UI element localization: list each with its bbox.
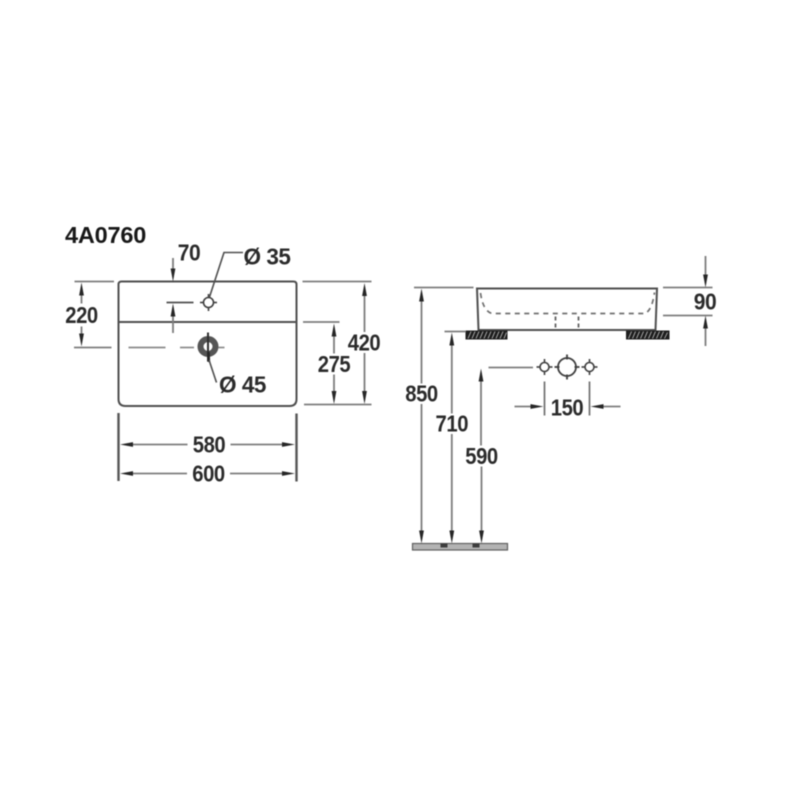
dimension 600 arrows <box>120 471 133 476</box>
floor hatch mark right <box>473 544 480 548</box>
svg-text:4A0760: 4A0760 <box>65 222 146 248</box>
dimension 220 lines <box>81 295 83 335</box>
drain dashed lines (side view) <box>556 317 579 331</box>
svg-text:710: 710 <box>436 411 469 437</box>
basin bowl interior dashed line <box>481 293 655 314</box>
tap hole centerline tick <box>167 302 194 304</box>
dimension 710 line <box>451 345 453 531</box>
dimension 220 arrows <box>79 283 84 296</box>
dimension 850 line <box>421 301 423 531</box>
floor bar <box>413 544 508 551</box>
svg-text:70: 70 <box>178 240 201 266</box>
dimension 70 arrows <box>171 269 176 282</box>
svg-text:275: 275 <box>318 351 351 377</box>
svg-text:420: 420 <box>348 330 381 356</box>
dimension 70 lines <box>172 258 174 333</box>
dimension 150 lines <box>515 406 621 408</box>
svg-text:220: 220 <box>65 302 98 328</box>
drain circle center (side view) <box>555 355 580 380</box>
dimension 90 lines <box>705 256 707 346</box>
dimension 275 line <box>333 336 335 392</box>
drain hole Ø45 centerline <box>129 347 225 349</box>
dimension 710 arrows <box>449 333 454 346</box>
dimension 220 extension lines <box>74 282 114 348</box>
svg-text:850: 850 <box>405 381 438 407</box>
dimension 90 arrows <box>703 275 708 288</box>
dimension 150 arrows <box>531 404 544 409</box>
right mounting bracket <box>626 331 670 340</box>
dimension 590 extension line <box>489 367 534 369</box>
svg-text:590: 590 <box>465 443 498 469</box>
left mounting bracket <box>466 331 508 340</box>
dimension 710 extension line <box>445 331 467 333</box>
tap hole Ø35 <box>200 294 217 311</box>
dimension 590 arrows <box>479 369 484 382</box>
width extension lines below plan <box>119 413 297 482</box>
basin profile (side view) <box>477 289 657 331</box>
dimension 850 arrows <box>419 289 424 302</box>
label Ø35 leader <box>210 253 244 298</box>
dimension 420 arrows <box>362 283 367 296</box>
svg-text:Ø 45: Ø 45 <box>219 372 266 398</box>
svg-text:90: 90 <box>694 289 717 315</box>
drain hole Ø45 <box>201 339 216 354</box>
label Ø45 leader <box>207 352 210 362</box>
dimension 580 arrows <box>120 442 133 447</box>
svg-text:580: 580 <box>193 432 226 458</box>
svg-text:150: 150 <box>551 395 584 421</box>
basin inner ledge line <box>119 321 296 323</box>
dimension 420 line <box>364 296 366 392</box>
dimension 150 extension lines <box>545 382 590 416</box>
drain hole Ø45 vertical crosshair <box>207 333 209 362</box>
floor hatch mark left <box>441 544 448 548</box>
svg-text:Ø 35: Ø 35 <box>244 244 291 270</box>
dimension 275 extension line <box>303 321 340 323</box>
dimension 600 line <box>133 473 283 475</box>
dimension 275 arrows <box>332 324 337 337</box>
fixing hole right (side view) <box>582 359 598 375</box>
dimension 580 line <box>133 444 283 446</box>
dimension 590 line <box>480 381 483 531</box>
svg-text:600: 600 <box>192 461 225 487</box>
dimension 850 extension line <box>414 287 474 289</box>
dimension 90 extension lines <box>663 288 713 316</box>
fixing hole left (side view) <box>537 359 553 375</box>
basin outer rect (plan view) <box>119 282 297 407</box>
dimension 420 extension lines <box>303 282 372 405</box>
